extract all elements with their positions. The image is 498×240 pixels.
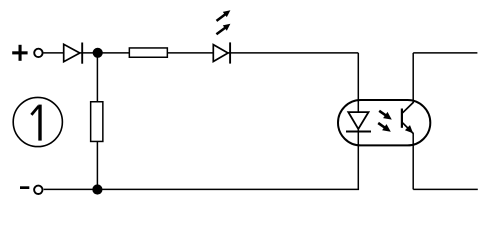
- LED D2: [213, 42, 230, 63]
- minus terminal label: [20, 186, 29, 189]
- resistor R1: [129, 48, 167, 57]
- LED D2 emission arrows: [216, 10, 230, 34]
- circuit number badge 1: [13, 97, 62, 146]
- optocoupler U1 internal LED: [346, 112, 371, 131]
- wire bottom right output: [413, 188, 478, 190]
- wire top right output: [413, 52, 477, 54]
- wire phototransistor emitter down: [412, 133, 414, 189]
- resistor R2: [91, 102, 103, 142]
- wire top main: [44, 52, 359, 54]
- node minus terminal: [34, 186, 42, 194]
- wire junction A down through resistor R2 to junction B: [96, 53, 98, 190]
- wire bottom main: [44, 188, 359, 190]
- optocoupler U1 coupling arrows: [378, 111, 392, 132]
- wire vertical through opto LED: [357, 53, 359, 190]
- node plus terminal: [34, 49, 42, 57]
- plus terminal label: [12, 45, 27, 61]
- junction node B: [92, 184, 102, 194]
- diode D1: [64, 43, 82, 64]
- optocoupler U1 phototransistor: [401, 102, 414, 134]
- optocoupler U1 body: [338, 100, 430, 145]
- junction node A: [93, 48, 103, 58]
- wire phototransistor collector up: [412, 53, 414, 103]
